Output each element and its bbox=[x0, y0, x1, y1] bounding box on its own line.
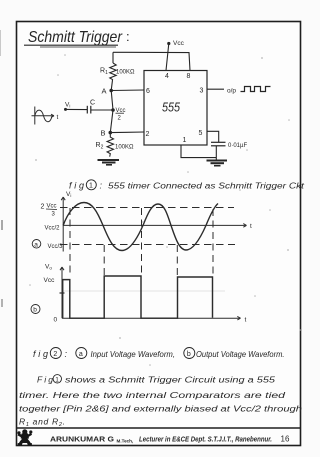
2Vcc/3 dashed threshold line bbox=[60, 207, 234, 209]
output square wave symbol bbox=[241, 87, 271, 92]
wire node A to pin 6 bbox=[111, 89, 144, 92]
node Vi bbox=[64, 102, 70, 111]
output square waveform bbox=[63, 276, 213, 318]
svg-text:1: 1 bbox=[89, 183, 93, 190]
circled b bbox=[31, 305, 40, 314]
svg-text:1: 1 bbox=[55, 377, 59, 384]
wire Vcc to pin 4 bbox=[166, 44, 169, 71]
ground right bbox=[207, 161, 228, 166]
svg-text:o/p: o/p bbox=[227, 88, 236, 95]
wire junction to node B bbox=[110, 110, 113, 133]
svg-text:shows a Schmitt Trigger Circui: shows a Schmitt Trigger Circuit using a … bbox=[65, 375, 275, 385]
input sine waveform bbox=[63, 203, 218, 251]
svg-text:t: t bbox=[57, 114, 59, 121]
svg-text:Vcc: Vcc bbox=[47, 204, 57, 210]
svg-text:Fig: Fig bbox=[37, 375, 53, 385]
svg-text:Vcc: Vcc bbox=[44, 277, 56, 284]
svg-text:B: B bbox=[101, 129, 106, 138]
node B bbox=[101, 129, 113, 138]
svg-text:b: b bbox=[187, 351, 191, 358]
svg-text:ARUNKUMAR G: ARUNKUMAR G bbox=[50, 435, 114, 444]
svg-text:2: 2 bbox=[53, 351, 57, 358]
input plot vertical axis bbox=[61, 197, 65, 252]
wire top of R1 bbox=[112, 52, 114, 63]
svg-text:M.Tech,: M.Tech, bbox=[117, 439, 134, 444]
capacitor C bbox=[87, 106, 91, 114]
scan edge artifacts bbox=[0, 30, 3, 307]
capacitor C2 0.01uF bbox=[211, 142, 226, 146]
faint guide line bbox=[63, 290, 225, 292]
svg-text:A: A bbox=[102, 87, 107, 96]
svg-text:a: a bbox=[79, 351, 83, 358]
svg-text:Vi: Vi bbox=[65, 102, 70, 109]
svg-text:16: 16 bbox=[281, 435, 290, 444]
wire pin 5 to cap bbox=[207, 131, 219, 142]
svg-text:Vo: Vo bbox=[45, 264, 52, 271]
input plot t axis bbox=[63, 224, 246, 228]
svg-text:0·01µF: 0·01µF bbox=[228, 143, 247, 149]
svg-text:100KΩ: 100KΩ bbox=[116, 70, 135, 76]
paragraph line 1 bbox=[37, 375, 275, 385]
wire node A to cap junction bbox=[111, 91, 113, 111]
resistor R2 bbox=[107, 133, 113, 157]
svg-text:0: 0 bbox=[54, 317, 58, 324]
output plot t axis bbox=[62, 316, 241, 320]
svg-text:2: 2 bbox=[146, 131, 150, 138]
svg-text:6: 6 bbox=[146, 88, 150, 95]
ground left bbox=[98, 160, 120, 165]
resistor R1 bbox=[110, 63, 116, 80]
dashed vertical guide x=213 bbox=[212, 209, 214, 277]
svg-text:C: C bbox=[90, 100, 95, 107]
wire node B to pin 2 bbox=[110, 131, 144, 134]
svg-text:555: 555 bbox=[162, 100, 181, 115]
Vcc/3 dashed threshold line bbox=[60, 244, 235, 246]
svg-text:8: 8 bbox=[187, 73, 191, 80]
svg-text:Output Voltage Waveform.: Output Voltage Waveform. bbox=[196, 350, 285, 359]
wire top rail R1 to pin 8 bbox=[113, 52, 190, 70]
svg-text:Vcc/2: Vcc/2 bbox=[45, 226, 61, 232]
dashed vertical guide x=70 bbox=[69, 208, 71, 277]
Vcc supply node bbox=[167, 40, 184, 47]
svg-text:b: b bbox=[33, 307, 37, 314]
svg-text:100KΩ: 100KΩ bbox=[115, 145, 134, 151]
wire pin 1 loop bbox=[181, 145, 216, 158]
svg-text:t: t bbox=[250, 223, 252, 230]
input source sketch bbox=[32, 107, 55, 125]
svg-text:5: 5 bbox=[199, 130, 203, 137]
op IC U1 555 timer box bbox=[144, 71, 207, 146]
caption fig 1 bbox=[69, 180, 305, 191]
svg-text:Vcc: Vcc bbox=[173, 40, 185, 47]
svg-text:Input Voltage Waveform,: Input Voltage Waveform, bbox=[91, 350, 176, 359]
dashed vertical guide x=142 bbox=[141, 208, 143, 276]
title: Schmitt Trigger bbox=[24, 29, 130, 47]
svg-text:3: 3 bbox=[200, 88, 204, 95]
footer separator line bbox=[16, 427, 300, 429]
svg-text::: : bbox=[126, 29, 130, 44]
svg-text:Schmitt Trigger: Schmitt Trigger bbox=[28, 29, 123, 46]
svg-text:Vi: Vi bbox=[66, 191, 71, 198]
caption fig 2 bbox=[33, 348, 285, 360]
svg-text:Lecturer in E&CE Dept. S.T.J.I: Lecturer in E&CE Dept. S.T.J.I.T., Raneb… bbox=[139, 435, 272, 444]
svg-text:4: 4 bbox=[165, 73, 169, 80]
dashed vertical guide x=177 bbox=[176, 245, 178, 277]
svg-text:together [Pin 2&6] and externa: together [Pin 2&6] and externally biased… bbox=[19, 404, 302, 414]
wire Vi to capacitor C bbox=[66, 108, 88, 110]
dashed vertical guide x=104 bbox=[103, 245, 105, 276]
2Vcc/3 level label bbox=[41, 204, 58, 218]
svg-text:t: t bbox=[245, 317, 247, 324]
wire R1 to node A bbox=[111, 80, 112, 91]
circled a bbox=[32, 240, 41, 249]
output plot vertical axis bbox=[60, 267, 65, 318]
wire cap to ground bbox=[215, 146, 217, 160]
node A bbox=[102, 87, 113, 96]
wire pin 3 output bbox=[207, 88, 224, 90]
footer logo emblem bbox=[18, 430, 32, 446]
svg-text:555 timer Connected as Schmitt: 555 timer Connected as Schmitt Trigger C… bbox=[108, 181, 305, 191]
svg-text:2: 2 bbox=[41, 204, 45, 211]
svg-text:a: a bbox=[34, 241, 38, 248]
scan speckles (decorative) bbox=[29, 54, 301, 366]
svg-text:timer. Here the two internal C: timer. Here the two internal Comparators… bbox=[19, 390, 285, 400]
svg-text:1: 1 bbox=[183, 137, 187, 144]
wire capacitor C to junction bbox=[91, 109, 113, 111]
junction node Vcc/2 bbox=[111, 108, 125, 122]
